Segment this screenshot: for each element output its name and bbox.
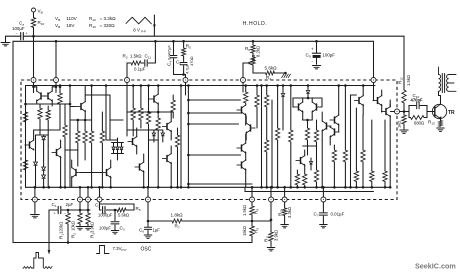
resistor left-edge 2 xyxy=(23,160,27,170)
wire left h1 xyxy=(26,103,71,105)
capacitor C5 4.7uF xyxy=(180,62,187,64)
svg-text:OSC: OSC xyxy=(141,247,152,253)
wire v 272b xyxy=(271,100,273,187)
capacitor C3 100uF xyxy=(114,209,117,212)
wire v 350 xyxy=(350,95,352,187)
wire pin16 to RC xyxy=(400,111,410,113)
wire bus y100 xyxy=(188,99,240,101)
svg-text:0.047µF: 0.047µF xyxy=(167,45,172,60)
resistor Rv5 xyxy=(371,120,373,171)
transistor Q18 xyxy=(316,103,318,110)
capacitor C1 2uF xyxy=(49,209,58,211)
diode stack D2 xyxy=(47,146,49,187)
svg-text:5.6kΩ: 5.6kΩ xyxy=(265,65,278,70)
wire interior top rail xyxy=(26,85,376,87)
wire Q1Q2 bases xyxy=(36,101,38,104)
node C9 top xyxy=(315,40,318,43)
wire bus y184 xyxy=(188,183,252,185)
diode Dr2 xyxy=(310,158,312,161)
resistor R11 3.9k xyxy=(269,232,273,241)
wire interior bottom rail xyxy=(26,186,390,188)
svg-text:1.5kΩ: 1.5kΩ xyxy=(406,75,411,86)
pin top 3 xyxy=(125,78,130,83)
wire Q5 base xyxy=(70,106,76,108)
pin right 16 xyxy=(395,109,400,114)
wire left h2 xyxy=(36,134,49,136)
svg-text:0.1µF: 0.1µF xyxy=(134,67,146,72)
resistor Rm2 xyxy=(140,86,142,109)
ground TR emitter xyxy=(437,127,445,129)
potentiometer 5k H.HOLD xyxy=(252,53,254,57)
diode Dff xyxy=(307,86,309,91)
wire pin2 riser xyxy=(55,41,57,77)
chassis ground R4 xyxy=(282,74,285,78)
bottom rail dots 2 xyxy=(42,186,45,189)
transistor Q10 xyxy=(166,123,168,130)
resistor Rv4 xyxy=(362,115,364,150)
node R6 top xyxy=(252,40,255,43)
wire out pin xyxy=(389,125,391,187)
resistor Rv3 xyxy=(355,108,357,171)
resistor 680 ohm xyxy=(409,112,411,118)
svg-text:P-P: P-P xyxy=(141,30,146,34)
wire v 110 xyxy=(109,95,111,140)
svg-text:2µF: 2µF xyxy=(66,202,74,207)
svg-text:H.HOLD.: H.HOLD. xyxy=(243,21,267,27)
ground pin bottom-1 xyxy=(34,202,36,214)
wire top rail VB xyxy=(6,35,21,37)
resistor R1 120k xyxy=(67,209,70,212)
transistor Q15 xyxy=(241,161,243,168)
svg-text:120kΩ: 120kΩ xyxy=(59,222,64,234)
pin top 6 xyxy=(371,78,376,83)
svg-text:10kΩ: 10kΩ xyxy=(71,221,76,231)
wire Q24 base xyxy=(373,95,375,101)
resistor Rv2 xyxy=(344,86,346,151)
wire v 106 xyxy=(105,86,107,141)
svg-text:8.2kΩ: 8.2kΩ xyxy=(256,46,261,57)
svg-text:100µF: 100µF xyxy=(322,53,335,58)
wire pin5 into IC xyxy=(242,83,244,93)
transistor Q7 xyxy=(106,169,108,176)
transistor Q8 xyxy=(132,138,134,145)
resistor Rm6 xyxy=(177,128,179,135)
wire h mid2 xyxy=(127,129,163,131)
wire pin6 into IC xyxy=(373,83,375,96)
resistor Rq3 xyxy=(84,120,86,131)
node pin252 junction xyxy=(251,220,254,223)
wire v 181 xyxy=(180,86,182,188)
pin bottom 8 xyxy=(282,197,287,202)
transistor Q3 xyxy=(29,141,31,148)
pin bottom 9 xyxy=(321,197,326,202)
diode trio xyxy=(112,143,124,154)
wire pin2 into IC xyxy=(55,83,57,93)
resistor Rm4 xyxy=(157,112,159,118)
svg-text:5.6kΩ: 5.6kΩ xyxy=(118,213,129,218)
resistor R5a 470 xyxy=(182,40,185,43)
capacitor Ca 100uF xyxy=(20,33,22,40)
wire bus y155 xyxy=(188,154,240,156)
arrow waveform probe xyxy=(153,15,155,36)
node pin2 riser junction xyxy=(55,40,58,43)
wire v 322 xyxy=(321,140,323,187)
ground R11 xyxy=(267,247,275,249)
transformer TR output xyxy=(438,67,440,75)
wire pin3 riser xyxy=(126,63,128,78)
diode Dm1 xyxy=(153,130,155,133)
wire Q4 emitter xyxy=(60,157,62,187)
wire R12 to node xyxy=(403,103,405,112)
wire R4 to chassis xyxy=(274,72,286,74)
transistor Q2 xyxy=(47,92,49,99)
wire rail B xyxy=(13,41,374,77)
transistor Q13 xyxy=(241,106,243,113)
diode Dr1 xyxy=(282,86,284,94)
wire TR collector xyxy=(440,96,442,105)
resistor Rm5 xyxy=(172,95,174,100)
svg-text:= 3.3kΩ: = 3.3kΩ xyxy=(100,16,117,21)
wire v 65 xyxy=(64,104,66,125)
transistor Q6 xyxy=(75,169,77,176)
wire pin1 into IC xyxy=(33,83,35,93)
svg-text:1.5kΩ: 1.5kΩ xyxy=(242,205,247,216)
wire bottom pin stub 9 xyxy=(322,187,324,197)
diode stack D1 xyxy=(43,135,45,137)
wire Q6Q7 bases xyxy=(80,172,102,174)
wire bus y113 xyxy=(188,112,240,114)
transistor Q14 xyxy=(241,144,243,151)
wire pin4 into IC xyxy=(185,83,187,96)
transistor Q4 xyxy=(56,149,58,156)
waveform sync pulse xyxy=(23,267,32,269)
resistor Rr3 xyxy=(277,86,279,129)
resistor R6 8.2k xyxy=(252,41,254,45)
svg-text:100µF: 100µF xyxy=(99,226,111,231)
node R1 bottom xyxy=(67,241,70,244)
transistor Q20 xyxy=(326,122,328,129)
wire bottom pin stub 6 xyxy=(251,187,253,197)
svg-text:TR: TR xyxy=(448,110,455,116)
ground R2 xyxy=(76,226,84,228)
resistor Rq7 xyxy=(47,106,49,110)
resistor Rb3 xyxy=(316,120,318,130)
svg-text:18V: 18V xyxy=(66,23,75,28)
svg-text:+: + xyxy=(26,32,28,36)
transistor Q23 xyxy=(358,97,360,104)
wire bottom pin stub 7 xyxy=(270,187,272,197)
wire h 95a xyxy=(85,94,110,96)
resistor Rq4 xyxy=(91,86,93,132)
transistor Q24 xyxy=(377,97,379,104)
capacitor C10 470pF xyxy=(409,106,416,112)
resistor R3 3.9k xyxy=(87,202,89,213)
resistor Rr4 xyxy=(290,86,292,131)
wire 1.8k feedback xyxy=(148,220,168,222)
wire h right1 xyxy=(351,94,357,96)
resistor left-edge xyxy=(23,112,27,122)
wire pins 252-271 xyxy=(252,220,271,222)
ground C9 xyxy=(312,65,320,67)
transistor Q5 xyxy=(80,103,82,110)
svg-text:= 330Ω: = 330Ω xyxy=(100,23,116,28)
transistor Q17 xyxy=(298,103,300,110)
sawtooth waveform 8Vp-p xyxy=(126,17,151,24)
transistor Q25 xyxy=(385,108,387,115)
pin top 1 xyxy=(31,78,36,83)
transistor Q9 xyxy=(153,95,155,102)
svg-text:−: − xyxy=(16,32,18,36)
svg-text:3.9kΩ: 3.9kΩ xyxy=(90,222,95,233)
svg-text:4.7µF: 4.7µF xyxy=(185,63,190,74)
transistor Q11 xyxy=(166,155,168,162)
wire h 140 xyxy=(106,139,118,141)
pin bottom 5 xyxy=(146,197,151,202)
wire pin 271 down xyxy=(270,202,272,232)
svg-text:8 V: 8 V xyxy=(133,28,140,33)
pin top 5 xyxy=(241,78,246,83)
pin bottom 7 xyxy=(269,197,274,202)
pin bottom 2 xyxy=(78,197,83,202)
wire bus y124 xyxy=(188,123,238,125)
resistor Rq5 xyxy=(101,112,103,131)
wire pin3 into IC xyxy=(126,83,128,137)
bottom rail dots xyxy=(34,186,37,189)
IC boundary (dashed) xyxy=(21,80,397,200)
top rail dots xyxy=(59,84,62,87)
resistor Rq1 xyxy=(59,87,61,93)
svg-text:110V: 110V xyxy=(66,16,77,21)
svg-text:7.3V: 7.3V xyxy=(113,246,122,251)
svg-text:3.3kΩ: 3.3kΩ xyxy=(287,207,292,218)
svg-text:+: + xyxy=(311,47,314,52)
wire v 188 xyxy=(187,86,189,188)
svg-text:1000µF: 1000µF xyxy=(98,213,113,218)
wire bottom pin stub 5 xyxy=(147,187,149,197)
ground R14 xyxy=(400,129,408,131)
wire h 120b xyxy=(110,119,123,121)
pin top 4 xyxy=(183,78,188,83)
capacitor C11 0.1uF xyxy=(141,62,144,64)
wire h mid1 xyxy=(127,111,173,113)
wire feedback bottom xyxy=(13,242,252,244)
wire loop C2 xyxy=(100,204,135,210)
wire h 120 xyxy=(70,119,92,121)
wire bottom pin stub 4 xyxy=(99,187,101,197)
transistor Q16 xyxy=(250,124,252,131)
wire Q25 to pin16 xyxy=(381,111,383,114)
pin top 2 xyxy=(54,78,59,83)
resistor Rr1 xyxy=(256,86,258,96)
svg-text:1.8kΩ: 1.8kΩ xyxy=(171,213,184,218)
wire bottom pin stub 2 xyxy=(79,187,81,197)
wire h 150b xyxy=(65,149,78,151)
resistor Rq2 xyxy=(77,120,79,131)
wire v 70 xyxy=(69,86,71,105)
resistor R2 10k xyxy=(79,202,81,213)
pin bottom 1 xyxy=(32,197,37,202)
wire RC to TR base xyxy=(427,111,435,113)
resistor R5 5.6k xyxy=(112,209,117,211)
terminal VB xyxy=(32,8,36,12)
capacitor C4 0.047uF xyxy=(172,40,175,43)
wire bottom pin stub 3 xyxy=(87,187,89,197)
resistor R7 1.8k xyxy=(168,220,172,222)
transistor Q19 xyxy=(300,157,302,164)
resistor R13 xyxy=(440,119,442,121)
wire pin 148 down xyxy=(147,202,149,227)
wire h 140c xyxy=(149,139,159,141)
diode D3 xyxy=(35,135,37,162)
transistor Q22 xyxy=(334,128,336,135)
wire pot wiper from pin5 xyxy=(243,63,249,78)
wire pin1 riser xyxy=(33,36,35,77)
resistor Rff xyxy=(305,128,309,140)
svg-text:3.9kΩ: 3.9kΩ xyxy=(274,230,279,241)
resistor Rm3 xyxy=(148,86,150,113)
ground C3 xyxy=(111,230,119,232)
svg-text:1.5kΩ: 1.5kΩ xyxy=(130,54,142,59)
wire bottom pin stub 1 xyxy=(34,187,36,197)
resistor R10 xyxy=(31,18,35,28)
wire C4 C5 join xyxy=(174,75,186,78)
wire interior left edge xyxy=(25,86,27,188)
ground C7 xyxy=(320,224,328,226)
wire bottom pin stub 8 xyxy=(284,187,286,197)
svg-text:15kΩ: 15kΩ xyxy=(242,226,247,236)
capacitor C2 1000uF xyxy=(99,202,101,210)
diode Dm2 xyxy=(162,130,164,133)
svg-text:0.01µF: 0.01µF xyxy=(331,212,345,217)
transistor TR xyxy=(432,104,446,118)
svg-text:680Ω: 680Ω xyxy=(414,121,424,126)
pin bottom 3 xyxy=(86,197,91,202)
waveform OSC square 7.3Vpp xyxy=(97,246,110,254)
transistor Q12 xyxy=(139,163,141,170)
wire v 385b xyxy=(384,120,386,171)
resistor R8 1.5k xyxy=(251,202,253,206)
resistor R15 3.3k xyxy=(284,202,286,208)
wire v 261 xyxy=(261,86,263,188)
svg-text:SeekIC.com: SeekIC.com xyxy=(415,262,456,271)
svg-text:1µF: 1µF xyxy=(153,228,161,233)
resistor Rq6 xyxy=(39,104,41,108)
ground R15 xyxy=(281,224,289,226)
wire Q3 collector xyxy=(33,130,35,140)
svg-text:470pF: 470pF xyxy=(411,98,424,103)
ground C6 xyxy=(144,234,152,236)
ground (supply bypass) xyxy=(5,36,7,42)
capacitor C7 0.01uF xyxy=(322,202,324,212)
node rail-VB junction xyxy=(32,35,35,38)
capacitor C9 100uF xyxy=(316,41,318,53)
wire C1 left probe xyxy=(48,210,50,251)
resistor R2a 1.5k xyxy=(127,62,131,64)
pin bottom 6 xyxy=(250,197,255,202)
resistor R12 1.5k xyxy=(402,90,406,103)
svg-text:100µF: 100µF xyxy=(12,26,25,31)
resistor Rb2 xyxy=(304,173,306,175)
resistor R4 5.6k xyxy=(262,72,266,74)
wire pin16 inside xyxy=(390,111,394,113)
resistor Rr2 xyxy=(266,86,268,96)
wire ff emitters xyxy=(303,119,313,121)
transistor Q21 xyxy=(334,116,336,123)
resistor Rm1 xyxy=(132,86,134,109)
wire h 146d xyxy=(303,145,317,147)
capacitor C6 1uF xyxy=(144,226,151,228)
pin bottom 4 xyxy=(97,197,102,202)
resistor R9 15k xyxy=(251,221,253,226)
ground R3 xyxy=(84,226,92,228)
svg-text:5kΩ: 5kΩ xyxy=(251,54,256,62)
svg-text:P-P: P-P xyxy=(122,248,127,252)
resistor R14 1k xyxy=(403,112,405,116)
wire pot bottom xyxy=(253,65,262,73)
wire interior bottom rail 2 xyxy=(245,191,374,193)
resistor Rb1 xyxy=(296,170,298,174)
transistor Q1 xyxy=(40,92,42,99)
resistor Rv1 xyxy=(333,145,335,150)
wire ff cross xyxy=(293,98,322,107)
